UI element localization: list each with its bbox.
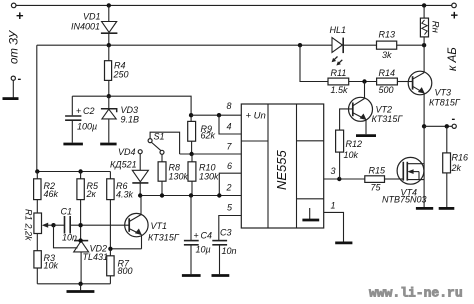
svg-text:от ЗУ: от ЗУ — [9, 29, 21, 64]
node R16 top — [445, 124, 449, 128]
wire left drop to divider rail — [36, 45, 38, 171]
node TL431 cathode — [78, 238, 82, 242]
resistor R4 — [105, 45, 129, 96]
LED HL1 — [330, 25, 347, 66]
node ground tap — [78, 282, 82, 286]
resistor R16 — [443, 126, 468, 207]
svg-text:VT1: VT1 — [151, 221, 168, 231]
node R8 bottom — [160, 193, 164, 197]
wire VT2 base from R12 — [340, 109, 353, 130]
svg-text:9.1В: 9.1В — [121, 115, 140, 125]
svg-text:R15: R15 — [369, 166, 387, 176]
svg-text:+: + — [16, 8, 24, 23]
wire pin5 link — [219, 216, 242, 241]
node pin6 tie — [217, 193, 221, 197]
svg-text:3k: 3k — [382, 50, 392, 60]
node VD1 top junction — [107, 3, 111, 7]
node VD1 cathode / R4 — [107, 43, 111, 47]
svg-text:TL431: TL431 — [83, 252, 109, 262]
switch S1 — [138, 132, 179, 155]
svg-text:10k: 10k — [344, 150, 359, 160]
ground (от ЗУ minus) — [3, 97, 19, 100]
svg-text:NTB75N03: NTB75N03 — [382, 195, 427, 205]
svg-text:C3: C3 — [220, 228, 232, 238]
node Rn top junction — [422, 3, 426, 7]
wire 9V rail — [72, 96, 191, 121]
svg-text:3: 3 — [331, 166, 336, 176]
capacitor C2 — [65, 96, 97, 142]
svg-text:VD4: VD4 — [118, 147, 136, 157]
wire TL431 ref — [54, 225, 78, 248]
svg-text:6: 6 — [227, 161, 232, 171]
node R11/R14/VT2 collector — [362, 79, 366, 83]
node battery minus / VT3 emitter / VT4 drain — [422, 124, 426, 128]
svg-text:500: 500 — [379, 85, 394, 95]
svg-text:+: + — [194, 231, 199, 241]
zener VD3 — [101, 96, 139, 142]
svg-text:VD1: VD1 — [83, 12, 101, 22]
svg-text:100µ: 100µ — [77, 122, 97, 132]
svg-text:-: - — [452, 113, 456, 125]
wire pin4 link — [219, 115, 241, 134]
resistor R9 — [188, 121, 216, 154]
svg-text:7: 7 — [227, 142, 233, 152]
diode VD1 — [71, 5, 117, 45]
svg-text:800: 800 — [118, 266, 133, 276]
svg-text:КТ815Г: КТ815Г — [429, 98, 461, 108]
capacitor C3 — [212, 228, 236, 275]
node R9/R10 pin7 — [189, 152, 193, 156]
svg-text:1.5k: 1.5k — [331, 85, 349, 95]
ground (bottom rail) — [67, 284, 95, 292]
node pin8/pin4 tie — [217, 113, 221, 117]
svg-text:5: 5 — [227, 203, 233, 213]
svg-text:R13: R13 — [379, 30, 396, 40]
node R4 bottom / VD3 — [107, 94, 111, 98]
capacitor C1 — [61, 207, 130, 243]
svg-text:R12: R12 — [346, 139, 363, 149]
node R1 wiper branch — [51, 223, 55, 227]
svg-text:46k: 46k — [44, 189, 59, 199]
svg-text:-: - — [18, 73, 22, 85]
resistor R7 — [107, 249, 133, 284]
ground (VT4 source) — [416, 207, 433, 210]
svg-text:C2: C2 — [83, 106, 95, 116]
svg-text:NE555: NE555 — [274, 149, 289, 190]
svg-text:130k: 130k — [169, 172, 189, 182]
resistor R10 — [188, 154, 219, 196]
wire pin1 link — [324, 212, 344, 241]
wire bottom rail — [37, 283, 110, 285]
svg-text:C1: C1 — [61, 207, 73, 217]
svg-text:Rн: Rн — [430, 21, 441, 34]
resistor R11 — [300, 45, 377, 95]
ground (VD3) — [100, 143, 116, 146]
svg-text:VD3: VD3 — [121, 105, 139, 115]
wire rail2 right segment — [343, 44, 424, 46]
transistor VT3 — [408, 45, 461, 126]
svg-text:4: 4 — [227, 122, 232, 132]
svg-text:10n: 10n — [222, 246, 237, 256]
diode VD4 — [110, 147, 148, 196]
resistor R15 — [365, 166, 398, 193]
svg-text:КД521: КД521 — [110, 160, 137, 170]
ground (C3) — [212, 274, 230, 277]
resistor R12 — [336, 130, 362, 179]
wire pin7 line — [180, 153, 242, 155]
node R6/R7 emitter junction — [108, 247, 112, 251]
ground (VT2 emitter) — [356, 134, 376, 137]
wire pin2 rail — [140, 195, 241, 197]
node R10 / C4 — [189, 193, 193, 197]
wire VT1 emitter return — [110, 248, 141, 250]
transistor VT2 — [349, 82, 404, 135]
node pin3 / R12 — [337, 177, 341, 181]
node VD4 / VT1 collector — [138, 193, 142, 197]
resistor Rн — [420, 5, 440, 45]
node R2 top — [35, 169, 39, 173]
resistor R3 — [34, 251, 59, 284]
svg-text:к АБ: к АБ — [447, 47, 459, 71]
svg-text:КТ315Г: КТ315Г — [148, 233, 180, 243]
potentiometer R1 — [24, 209, 54, 251]
svg-text:IN4001: IN4001 — [71, 22, 100, 32]
svg-text:R16: R16 — [452, 153, 469, 163]
node R11 branch — [298, 43, 302, 47]
svg-text:8: 8 — [227, 101, 232, 111]
node R5 top — [78, 169, 82, 173]
ground (pin1) — [335, 241, 352, 244]
terminal - (от ЗУ minus) — [11, 73, 21, 85]
wire minus to ground — [12, 80, 14, 97]
ground (R16) — [439, 207, 455, 210]
resistor R6 — [107, 172, 134, 249]
wire divider rail — [37, 171, 111, 173]
svg-text:250: 250 — [113, 70, 129, 80]
resistor R2 — [34, 172, 59, 214]
svg-text:S1: S1 — [154, 132, 165, 142]
IC U1 NE555 body — [241, 104, 323, 228]
svg-text:R1: R1 — [24, 209, 34, 221]
svg-text:C4: C4 — [201, 231, 213, 241]
svg-text:10µ: 10µ — [196, 245, 211, 255]
svg-text:+: + — [76, 106, 81, 116]
ground symbol inside IC — [302, 208, 319, 220]
svg-text:VT3: VT3 — [435, 88, 452, 98]
svg-text:130k: 130k — [199, 172, 219, 182]
svg-text:КТ315Г: КТ315Г — [372, 114, 404, 124]
svg-text:+ Un: + Un — [246, 111, 266, 122]
svg-text:75: 75 — [371, 183, 382, 193]
ground (C4) — [182, 274, 201, 277]
svg-text:2k: 2k — [451, 163, 462, 173]
wire rail2 left segment — [37, 44, 332, 46]
shunt VD2 TL431 — [74, 241, 108, 284]
transistor VT1 — [125, 196, 180, 249]
svg-text:1: 1 — [331, 201, 336, 211]
resistor R14 — [377, 68, 409, 95]
terminal + (к АБ plus) — [451, 3, 459, 22]
resistor R8 — [158, 154, 188, 195]
svg-text:10k: 10k — [44, 261, 59, 271]
terminal + (от ЗУ plus) — [11, 3, 24, 23]
resistor R5 — [77, 172, 99, 241]
node R9 top — [189, 113, 193, 117]
svg-text:R14: R14 — [379, 68, 396, 78]
svg-text:R11: R11 — [331, 68, 347, 78]
svg-text:4.3k: 4.3k — [116, 190, 134, 200]
ground (C2) — [63, 143, 83, 146]
svg-text:2,2k: 2,2k — [24, 223, 34, 242]
capacitor C4 — [184, 196, 212, 275]
transistor VT4 MOSFET — [382, 126, 427, 207]
wire pin8 stub — [191, 114, 241, 116]
svg-text:www.li-ne.ru: www.li-ne.ru — [369, 286, 463, 301]
svg-text:2: 2 — [226, 183, 232, 193]
wire pin6 link — [219, 173, 241, 195]
resistor R13 — [377, 30, 397, 61]
terminal - (к АБ minus) — [452, 113, 457, 128]
wire battery minus — [424, 125, 452, 127]
svg-text:2к: 2к — [86, 189, 97, 199]
svg-text:HL1: HL1 — [330, 25, 347, 35]
svg-text:+: + — [451, 8, 459, 23]
node Rn bottom / VT3 collector — [422, 43, 426, 47]
node C1 / R5 / VT1 base — [78, 223, 82, 227]
wire wiper to C1 — [54, 224, 65, 226]
wire pin3 stub — [324, 178, 365, 180]
wire top rail — [16, 4, 452, 6]
svg-text:62k: 62k — [201, 131, 216, 141]
